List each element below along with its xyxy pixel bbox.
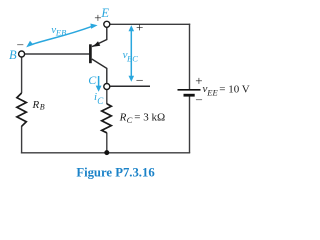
svg-text:EC: EC — [126, 53, 138, 63]
wire RC to bottom junction — [106, 133, 108, 153]
wire collector lead: base bar diagonal down then to C node — [92, 59, 107, 83]
svg-text:= 3 kΩ: = 3 kΩ — [134, 112, 165, 124]
svg-text:C: C — [97, 96, 104, 106]
wire right lower: battery to bottom-right corner — [189, 95, 191, 152]
battery VEE short plate — [184, 94, 195, 97]
svg-text:C: C — [127, 115, 133, 125]
svg-text:C: C — [88, 73, 97, 87]
arrow vEC (vertical, two heads) — [130, 29, 132, 79]
node E (open terminal) — [104, 21, 110, 27]
svg-text:Figure P7.3.16: Figure P7.3.16 — [76, 166, 154, 180]
arrow vEB (curved, two heads) — [29, 26, 93, 45]
svg-text:= 10 V: = 10 V — [219, 83, 250, 95]
svg-text:–: – — [136, 72, 144, 86]
resistor RC — [102, 104, 112, 133]
wire collector below C node to RC — [106, 90, 108, 104]
svg-text:E: E — [100, 6, 109, 20]
wire stub right of C node — [110, 85, 150, 87]
wire emitter lead: E node down then diagonal to base bar — [92, 27, 107, 46]
svg-text:R: R — [32, 99, 40, 111]
arrow iC — [98, 76, 100, 88]
svg-text:EB: EB — [55, 27, 66, 37]
node C (open terminal) — [104, 84, 110, 90]
resistor RB — [17, 93, 26, 126]
transistor Q1 emitter arrowhead (PNP) — [93, 41, 100, 47]
wire bottom — [21, 152, 190, 154]
svg-text:–: – — [16, 37, 24, 51]
wire left lower: RB to bottom-left corner — [21, 126, 23, 154]
wire base: B node to transistor base — [25, 53, 90, 55]
wire left upper: B node to RB — [21, 57, 23, 93]
svg-text:+: + — [94, 10, 101, 25]
svg-text:B: B — [9, 48, 17, 62]
transistor Q1 base bar — [89, 44, 92, 63]
svg-text:R: R — [119, 112, 127, 124]
svg-text:B: B — [40, 103, 45, 112]
junction dot bottom — [104, 150, 109, 155]
battery VEE long plate — [178, 89, 201, 91]
svg-text:+: + — [136, 20, 143, 35]
wire top: E node to top-right corner — [110, 23, 190, 25]
node B (open terminal) — [19, 51, 25, 57]
wire right upper: corner down to battery — [189, 24, 191, 90]
svg-text:EE: EE — [206, 88, 218, 98]
